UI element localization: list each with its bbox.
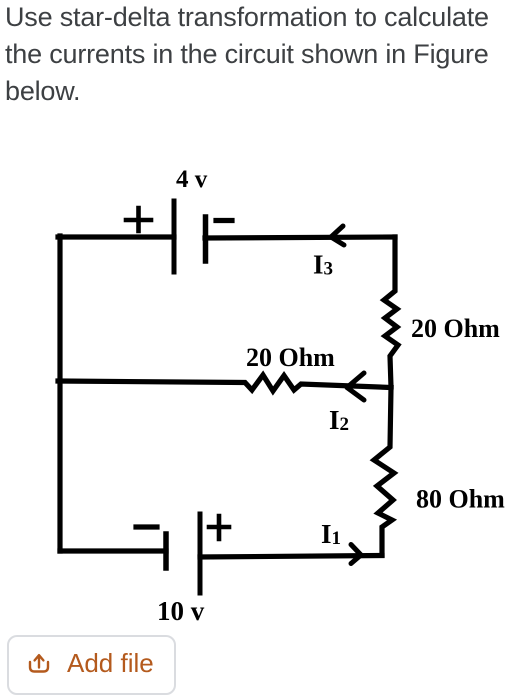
svg-text:I3: I3	[313, 250, 333, 280]
svg-text:4 v: 4 v	[176, 166, 208, 193]
svg-text:I2: I2	[329, 405, 349, 435]
svg-text:20 Ohm: 20 Ohm	[411, 314, 500, 343]
svg-text:I1: I1	[321, 519, 341, 549]
svg-text:80 Ohm: 80 Ohm	[416, 485, 505, 514]
svg-text:20 Ohm: 20 Ohm	[246, 343, 335, 372]
svg-text:10 v: 10 v	[157, 596, 205, 626]
